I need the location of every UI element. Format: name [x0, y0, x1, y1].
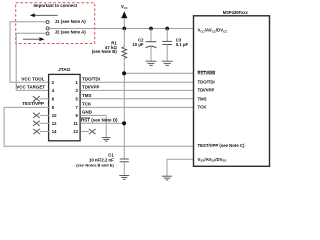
svg-text:VCC TARGET: VCC TARGET [16, 85, 45, 90]
svg-text:VCC TOOL: VCC TOOL [21, 76, 44, 81]
svg-text:10: 10 [52, 113, 57, 118]
svg-text:TDO/TDI: TDO/TDI [82, 77, 100, 82]
wire TDO/TDI [80, 81, 193, 83]
wire Vcc rail [49, 28, 194, 30]
svg-text:MSP430Fxxx: MSP430Fxxx [223, 10, 249, 15]
arrow (left, tool side) [30, 13, 58, 17]
svg-text:14: 14 [52, 129, 57, 134]
svg-text:J2 (see Note A): J2 (see Note A) [55, 29, 86, 34]
ground (Vss) [162, 176, 172, 180]
svg-text:12: 12 [52, 121, 57, 126]
svg-text:JTAG: JTAG [58, 67, 71, 73]
ground (C1) [119, 176, 129, 180]
svg-text:TDI/VPP: TDI/VPP [82, 85, 100, 90]
no-connect X pin 10 [33, 113, 49, 118]
wire Vss to ground [167, 159, 194, 176]
jumper J1 [46, 19, 86, 30]
node C3 junction [165, 27, 169, 31]
svg-text:VSS/AVSS/DVSS: VSS/AVSS/DVSS [198, 157, 227, 163]
resistor R1 [92, 29, 127, 59]
no-connect X pin 13 [80, 129, 95, 134]
capacitor C3 [162, 29, 188, 62]
pin Vss/AVss/DVss [198, 157, 227, 163]
wire R1 to C1 (crossing signal wires) [123, 58, 125, 159]
wire GND pin 9 [80, 115, 106, 137]
svg-text:0.1 µF: 0.1 µF [176, 42, 189, 47]
svg-text:TEST/VPP: TEST/VPP [22, 101, 44, 106]
svg-text:(see Notes B and E): (see Notes B and E) [76, 162, 114, 167]
svg-text:10 µF: 10 µF [132, 42, 143, 47]
svg-text:GND: GND [82, 110, 93, 115]
important-to-connect dashed box [16, 3, 95, 44]
svg-text:Important to connect: Important to connect [33, 3, 77, 8]
pin Vcc/AVcc/DVcc [198, 28, 229, 34]
svg-text:VCC/AVCC/DVCC: VCC/AVCC/DVCC [198, 28, 229, 34]
wire VCC TOOL to J1 [10, 22, 49, 83]
svg-text:CC: CC [124, 6, 128, 10]
ground (JTAG GND) [102, 138, 111, 142]
wire VCC TARGET to J2 [16, 33, 49, 90]
svg-text:TMS: TMS [82, 93, 92, 98]
svg-text:11: 11 [73, 121, 78, 126]
arrow (right, target side) [23, 37, 45, 41]
wire TEST/VPP from pin 8 to MSP430 [4, 107, 193, 146]
wire TMS [80, 98, 193, 100]
capacitor C1 [76, 152, 129, 175]
svg-text:TDI/VPP: TDI/VPP [198, 88, 215, 93]
no-connect X pin 6 [33, 96, 49, 101]
svg-text:TCK: TCK [198, 105, 208, 110]
svg-text:TMS: TMS [198, 96, 207, 101]
svg-text:RST (see Note D): RST (see Note D) [81, 118, 118, 123]
wire RST/NMI to MSP430 [124, 72, 193, 74]
node Vcc/R1 junction [122, 27, 126, 31]
capacitor C2 [132, 29, 156, 62]
node C2 junction [149, 27, 153, 31]
svg-text:(see Note B): (see Note B) [92, 49, 118, 54]
no-connect X pin 12 [33, 121, 49, 126]
svg-text:TDO/TDI: TDO/TDI [198, 80, 215, 85]
no-connect X pin 14 [33, 129, 49, 134]
JTAG pin numbers left column [52, 80, 57, 134]
JTAG pin numbers right column [73, 80, 78, 134]
JTAG connector box [49, 67, 81, 141]
pin RST/NMI [198, 71, 216, 76]
svg-text:TEST/VPP (see Note C): TEST/VPP (see Note C) [198, 143, 246, 148]
MSP430 box [194, 10, 270, 166]
svg-text:13: 13 [73, 129, 78, 134]
label RST (see Note D) with overline [81, 118, 118, 123]
svg-text:TCK: TCK [82, 102, 92, 107]
ground (C3) [162, 61, 173, 65]
jumper J2 [46, 29, 86, 35]
node RST junction [122, 121, 126, 125]
node RST/NMI junction [122, 71, 126, 75]
svg-text:J1 (see Note A): J1 (see Note A) [55, 19, 86, 24]
wire TDI/VPP [80, 89, 193, 91]
ground (C2) [146, 61, 157, 65]
wire RST pin 11 to R1/C1 node [80, 122, 124, 124]
power Vcc [121, 4, 128, 28]
wire TCK [80, 106, 193, 108]
